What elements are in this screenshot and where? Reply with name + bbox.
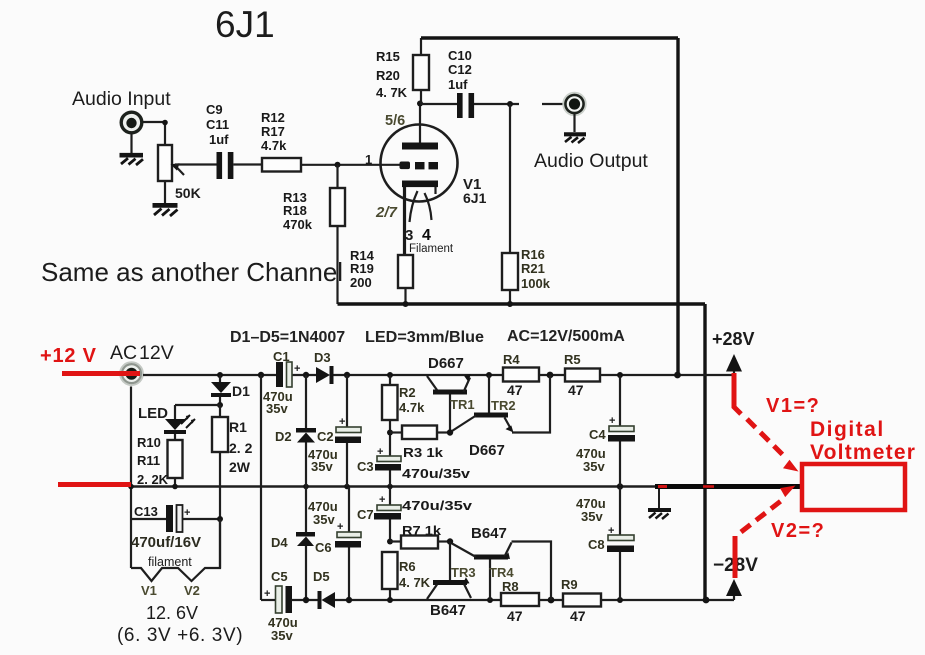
capacitor C10/C12 1uf — [448, 48, 474, 118]
top rail — [421, 36, 678, 39]
red label Voltmeter — [810, 441, 916, 464]
capacitor C4 470u/35v — [576, 375, 635, 486]
svg-text:47: 47 — [507, 608, 523, 624]
svg-text:+28V: +28V — [712, 329, 755, 349]
svg-text:V1=?: V1=? — [766, 395, 820, 417]
svg-text:C11: C11 — [206, 117, 229, 132]
svg-text:2. 2K: 2. 2K — [137, 472, 169, 487]
svg-text:filament: filament — [148, 555, 192, 569]
svg-text:LED=3mm/Blue: LED=3mm/Blue — [365, 329, 484, 346]
svg-text:470u/35v: 470u/35v — [402, 466, 471, 481]
red label V1=? — [766, 395, 820, 417]
svg-text:V1: V1 — [141, 583, 157, 598]
red dashed arrow to voltmeter (V2) — [741, 486, 796, 533]
wire R12 to grid node — [301, 162, 402, 168]
tube plate — [402, 103, 438, 150]
svg-text:200: 200 — [350, 275, 372, 290]
svg-text:R2: R2 — [399, 385, 416, 400]
svg-text:35v: 35v — [583, 459, 605, 474]
tube cathode — [402, 181, 438, 256]
svg-text:+12 V: +12 V — [40, 345, 97, 367]
wire dash to jack — [542, 103, 564, 105]
label AC=12V/500mA — [507, 328, 625, 345]
svg-text:+: + — [184, 507, 190, 519]
resistor R13/R18 470k — [283, 165, 345, 304]
resistor R15/R20 4.7K — [376, 38, 429, 104]
svg-text:4: 4 — [422, 227, 431, 244]
svg-text:50K: 50K — [175, 185, 201, 201]
resistor R9 47 — [561, 577, 601, 624]
diode D5 — [313, 569, 335, 609]
svg-text:R20: R20 — [376, 68, 400, 83]
svg-text:5/6: 5/6 — [385, 113, 405, 129]
diode D2 — [275, 428, 316, 444]
red wire +12V — [62, 371, 140, 376]
svg-text:1uf: 1uf — [209, 132, 229, 147]
svg-text:D4: D4 — [271, 535, 288, 550]
svg-text:TR4: TR4 — [489, 565, 514, 580]
red label V2=? — [771, 520, 825, 542]
svg-text:TR1: TR1 — [450, 397, 475, 412]
diode D4 — [271, 532, 315, 550]
resistor R12/R17 4.7k — [261, 110, 301, 172]
svg-text:V2: V2 — [184, 583, 200, 598]
svg-text:1uf: 1uf — [448, 77, 468, 92]
capacitor C3 470u/35v — [357, 446, 471, 486]
svg-text:C5: C5 — [271, 569, 288, 584]
potentiometer 50K — [158, 145, 201, 201]
svg-text:6J1: 6J1 — [463, 190, 487, 206]
svg-text:+: + — [264, 588, 270, 600]
svg-text:TR2: TR2 — [491, 398, 516, 413]
svg-text:R8: R8 — [502, 579, 519, 594]
svg-text:R21: R21 — [521, 261, 545, 276]
svg-text:47: 47 — [570, 608, 586, 624]
wire pot bottom to ground — [164, 181, 166, 203]
svg-text:TR3: TR3 — [451, 565, 476, 580]
resistor R1 2.2 2W — [212, 405, 253, 519]
filament bracket — [131, 519, 220, 598]
svg-text:47: 47 — [568, 382, 584, 398]
label V1 6J1 — [463, 176, 487, 206]
capacitor C6 470u/35v — [308, 487, 361, 600]
svg-text:C13: C13 — [134, 504, 158, 519]
svg-text:C9: C9 — [206, 102, 223, 117]
mid rail 0V — [128, 483, 802, 489]
resistor R8 47 — [501, 579, 539, 624]
svg-text:12. 6V: 12. 6V — [146, 603, 198, 623]
tube V1 6J1 envelope — [381, 125, 458, 202]
-28V arrow — [726, 579, 742, 600]
transistor TR2 D667 — [452, 375, 550, 459]
svg-text:2W: 2W — [229, 459, 251, 475]
svg-text:470uf/16V: 470uf/16V — [131, 534, 201, 551]
svg-text:LED: LED — [138, 405, 168, 422]
svg-text:+: + — [294, 363, 300, 375]
svg-text:V2=?: V2=? — [771, 520, 825, 542]
svg-text:D3: D3 — [314, 350, 331, 365]
pin labels — [385, 113, 405, 129]
svg-text:B647: B647 — [430, 602, 466, 619]
tube filament curves — [410, 191, 432, 222]
output jack J2 — [563, 93, 586, 116]
capacitor C9/C11 1uf — [206, 102, 233, 179]
resistor R4 47 — [503, 352, 539, 398]
red label +12 V — [40, 345, 97, 367]
svg-text:Audio Output: Audio Output — [534, 150, 648, 172]
PSU top rail — [143, 372, 734, 379]
svg-text:1: 1 — [365, 152, 372, 167]
svg-text:D1–D5=1N4007: D1–D5=1N4007 — [230, 329, 345, 346]
svg-text:R19: R19 — [350, 261, 374, 276]
svg-text:D1: D1 — [232, 383, 250, 399]
svg-text:AC: AC — [110, 342, 137, 364]
resistor R5 47 — [564, 352, 600, 398]
svg-text:470k: 470k — [283, 217, 313, 232]
label Same as another Channel — [41, 257, 343, 287]
svg-text:R15: R15 — [376, 49, 400, 64]
amp bottom rail — [338, 301, 706, 600]
diode D1 — [211, 375, 250, 408]
red wire at 0V input — [58, 482, 131, 487]
wire jack to corner — [143, 120, 168, 145]
transistor TR4 B647 — [452, 525, 551, 600]
svg-text:12V: 12V — [139, 342, 174, 364]
input jack J1 — [121, 112, 142, 133]
PSU bottom rail — [261, 597, 734, 604]
resistor R14/R19 200 — [350, 248, 413, 304]
label Filament — [409, 243, 454, 255]
svg-text:35v: 35v — [271, 628, 293, 643]
lower half: C7 — [357, 487, 473, 545]
ground under pot — [153, 205, 178, 216]
diode D3 — [314, 350, 334, 384]
svg-text:C3: C3 — [357, 459, 374, 474]
svg-text:R5: R5 — [564, 352, 581, 367]
svg-text:C6: C6 — [315, 540, 332, 555]
svg-text:C7: C7 — [357, 507, 374, 522]
svg-text:47: 47 — [507, 382, 523, 398]
+28V arrow — [726, 354, 742, 375]
svg-text:4.7k: 4.7k — [399, 400, 425, 415]
svg-text:Audio Input: Audio Input — [72, 88, 171, 110]
red dashed arrow to voltmeter (V1) — [747, 419, 799, 472]
label (6.3V +6.3V) — [117, 625, 243, 646]
svg-text:D5: D5 — [313, 569, 330, 584]
red elbow from -28V — [733, 536, 738, 578]
svg-text:C2: C2 — [317, 429, 334, 444]
D2/D4 vertical x306 — [305, 375, 307, 600]
resistor R16/R21 100k — [502, 104, 551, 304]
capacitor C13 470uf/16V — [131, 504, 223, 551]
label Audio Input — [72, 88, 171, 110]
svg-text:R12: R12 — [261, 110, 285, 125]
AC terminal — [120, 362, 143, 385]
svg-text:4. 7K: 4. 7K — [376, 85, 408, 100]
svg-text:(6. 3V +6. 3V): (6. 3V +6. 3V) — [117, 625, 243, 646]
transistor TR3 B647 — [427, 542, 476, 620]
red label Digital — [810, 418, 885, 441]
svg-text:C8: C8 — [588, 537, 605, 552]
ground at 0V rail — [648, 489, 671, 519]
svg-text:470u/35v: 470u/35v — [402, 498, 473, 513]
label +28V — [712, 329, 755, 349]
svg-text:3: 3 — [405, 227, 413, 244]
capacitor C8 470u/35v — [576, 487, 634, 600]
voltmeter box — [802, 464, 905, 510]
resistor R10/R11 2.2K — [137, 434, 183, 487]
svg-text:35v: 35v — [266, 401, 288, 416]
svg-text:100k: 100k — [521, 276, 551, 291]
svg-text:Filament: Filament — [409, 243, 454, 255]
svg-text:6J1: 6J1 — [215, 4, 275, 45]
capacitor C1 470u/35v — [263, 349, 300, 416]
tube grid — [400, 162, 439, 170]
svg-text:C4: C4 — [589, 427, 606, 442]
svg-text:R18: R18 — [283, 203, 307, 218]
label -28V — [713, 555, 758, 576]
svg-text:D667: D667 — [469, 442, 505, 459]
svg-text:R3 1k: R3 1k — [403, 445, 444, 460]
svg-text:AC=12V/500mA: AC=12V/500mA — [507, 328, 625, 345]
red small dash on 0V line — [658, 485, 714, 488]
capacitor C5 470u/35v — [264, 569, 298, 643]
svg-text:D667: D667 — [428, 355, 464, 372]
resistor R7 1k — [390, 523, 453, 549]
svg-text:35v: 35v — [311, 459, 333, 474]
resistor R2 4.7k — [382, 375, 425, 456]
svg-text:4. 7K: 4. 7K — [399, 575, 431, 590]
title 6J1 — [215, 4, 275, 45]
wire plate node to C10 — [420, 103, 457, 105]
capacitor C2 470u/35v — [308, 375, 361, 486]
svg-text:C10: C10 — [448, 48, 472, 63]
label 12.6V — [146, 603, 198, 623]
svg-text:Digital: Digital — [810, 418, 885, 441]
wire LED branch top — [175, 405, 220, 419]
svg-text:Voltmeter: Voltmeter — [810, 441, 916, 464]
ground under output jack — [564, 114, 586, 143]
svg-text:C12: C12 — [448, 62, 472, 77]
svg-text:R10: R10 — [137, 435, 161, 450]
transistor TR1 D667 — [427, 355, 475, 436]
red elbow from +28V — [734, 373, 741, 414]
svg-text:R16: R16 — [521, 247, 545, 262]
wire C9 to R12 — [233, 163, 262, 165]
svg-text:35v: 35v — [581, 509, 603, 524]
svg-text:2/7: 2/7 — [375, 204, 398, 221]
svg-text:R6: R6 — [399, 559, 416, 574]
svg-text:R4: R4 — [503, 352, 520, 367]
label Audio Output — [534, 150, 648, 172]
wire wiper to C9 — [175, 163, 217, 165]
svg-text:35v: 35v — [313, 512, 335, 527]
svg-text:R9: R9 — [561, 577, 578, 592]
LED — [138, 405, 195, 434]
svg-text:R17: R17 — [261, 124, 285, 139]
junction plate node — [417, 101, 423, 107]
resistor R6 4.7K — [382, 552, 431, 600]
AC feed vertical x261 — [260, 375, 262, 600]
label LED=3mm/Blue — [365, 329, 484, 346]
svg-text:R1: R1 — [229, 419, 247, 435]
wire C10 to output node — [474, 101, 519, 107]
left vertical from terminal — [130, 387, 132, 569]
right vertical to PSU — [676, 38, 679, 375]
svg-text:2. 2: 2. 2 — [229, 440, 253, 456]
svg-text:4.7k: 4.7k — [261, 138, 287, 153]
svg-text:B647: B647 — [471, 525, 507, 542]
resistor R3 1k — [390, 426, 450, 461]
svg-text:Same as another Channel: Same as another Channel — [41, 257, 343, 287]
ground under input jack — [120, 133, 144, 165]
svg-text:R11: R11 — [137, 453, 160, 468]
label AC12V — [110, 342, 174, 364]
label D1-D5=1N4007 — [230, 329, 345, 346]
svg-text:D2: D2 — [275, 429, 292, 444]
